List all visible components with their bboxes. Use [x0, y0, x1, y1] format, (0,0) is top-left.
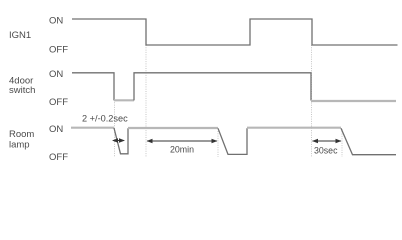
dashed guide x=114.5 (door close)	[114, 100, 116, 157]
Room lamp fall diagonal 3 + OFF tail (dark)	[341, 128, 396, 154]
svg-text:IGN1: IGN1	[9, 30, 31, 41]
arrow 2sec (double-headed, short)	[112, 138, 125, 143]
dashed guide x=342 (lamp fade start, right)	[341, 129, 343, 157]
svg-text:30sec: 30sec	[314, 146, 338, 156]
IGN1 waveform	[72, 19, 398, 45]
svg-text:OFF: OFF	[49, 152, 68, 163]
4door switch waveform ON segments (dark)	[72, 73, 114, 101]
svg-text:2 +/-0.2sec: 2 +/-0.2sec	[82, 114, 128, 124]
Room lamp ON segment 2 (light thick)	[128, 127, 218, 129]
arrow 30sec (double-headed)	[312, 139, 342, 144]
svg-text:lamp: lamp	[9, 140, 30, 151]
svg-text:ON: ON	[49, 124, 63, 135]
dashed guide x=218 (lamp fade start)	[217, 131, 219, 157]
svg-text:ON: ON	[49, 69, 63, 80]
Room lamp ON segment 3 (light thick)	[247, 127, 341, 129]
Room lamp fall diagonal 2 + OFF + rise (dark)	[218, 128, 247, 154]
svg-text:OFF: OFF	[49, 97, 68, 108]
svg-text:Room: Room	[9, 129, 34, 140]
svg-text:OFF: OFF	[49, 45, 68, 56]
4door rise and long ON (dark)	[134, 73, 311, 101]
4door pulse bottom (light)	[114, 99, 134, 101]
dashed guide x=146 (IGN off)	[145, 45, 147, 157]
svg-text:ON: ON	[49, 16, 63, 27]
Room lamp fall diagonal 1 (dark)	[114, 128, 128, 154]
svg-text:switch: switch	[9, 85, 35, 96]
4door OFF right segment (light)	[311, 100, 396, 102]
Room lamp ON segment 1 (light thick)	[71, 127, 114, 129]
arrow 20min (double-headed)	[147, 139, 218, 144]
svg-text:20min: 20min	[170, 145, 194, 155]
dashed guide x=311.5 (IGN off / door off)	[311, 45, 313, 157]
